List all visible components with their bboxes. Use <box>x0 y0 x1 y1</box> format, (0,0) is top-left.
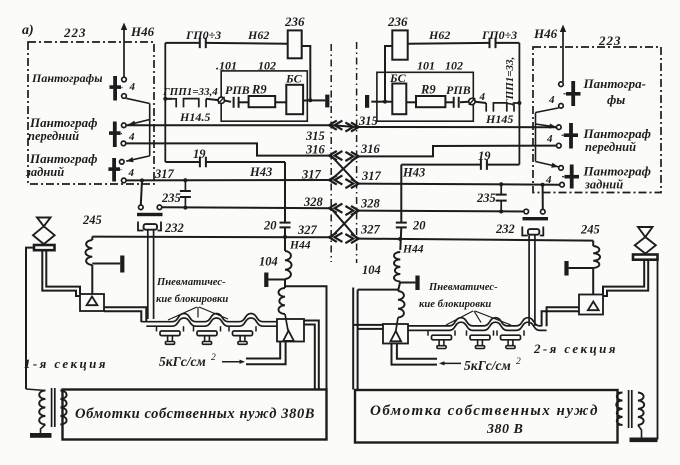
junction dot 327/H43 (left) <box>283 235 287 239</box>
blade arrow into S2 top contact <box>128 120 150 126</box>
chevron 327 right <box>345 234 358 243</box>
svg-text:фы: фы <box>607 92 625 107</box>
svg-text:223: 223 <box>63 25 87 40</box>
wire H46 (left) with up arrow <box>121 23 127 78</box>
valve 232 body (left) <box>138 222 161 231</box>
label H14.5 (left) <box>179 110 210 124</box>
junction dot 317-cap235 (left) <box>183 178 187 182</box>
label 101 (left) <box>216 59 237 73</box>
connector box 101-102 (right) <box>377 72 473 121</box>
label H46 (left) <box>130 24 155 39</box>
label БС (right) <box>389 71 407 85</box>
junction dot wire317-switch (left) <box>140 178 144 182</box>
crossed jumper 327-328 <box>331 211 357 238</box>
label H145 (right) <box>485 112 513 126</box>
block БС (right) <box>392 84 406 115</box>
switch S1 actuator cross (right) <box>566 81 581 106</box>
ground bar contact (left coil245) <box>92 256 124 273</box>
label 20 (right) <box>412 219 426 233</box>
wire 317 (left) <box>126 179 331 181</box>
ground lead (right) <box>638 425 642 438</box>
label 316 (left) <box>305 143 326 157</box>
label H44 (right) <box>402 244 424 256</box>
switch S2 Пантограф передний (right): fixed contacts <box>557 125 562 148</box>
svg-text:328: 328 <box>360 197 381 211</box>
chevron 316 right <box>345 152 358 161</box>
wire between coils (left) <box>284 279 286 288</box>
label 101 (right) <box>417 59 435 73</box>
label 19 (left) <box>193 147 206 161</box>
resistor 236 (left) <box>288 30 302 58</box>
svg-text:380 В: 380 В <box>486 422 523 437</box>
wire 316 (right) <box>357 146 557 157</box>
label 236 (right) <box>387 14 408 29</box>
pointer lines to valves (left) <box>168 307 228 320</box>
capacitor 235 (left) <box>180 180 191 207</box>
label R9 (right) <box>420 83 436 97</box>
label 5kgf/cm2 with arrow (right) <box>439 357 521 373</box>
chevron 315 right <box>345 122 358 131</box>
capacitor 20 (right) <box>396 223 407 228</box>
transformer core (left) <box>52 388 55 427</box>
air supply pipe (left) <box>246 342 286 364</box>
transformer top link (left) <box>26 389 45 391</box>
wire node to BS (right) <box>371 101 392 103</box>
label 223 (right) <box>598 33 622 48</box>
label 327 (left) <box>297 223 318 237</box>
air pipe from pantograph (left) <box>42 250 80 296</box>
wire from 236 down to node (left) <box>302 46 311 100</box>
label 104 (right) <box>362 263 381 277</box>
label БС (left) <box>285 72 303 86</box>
capacitor ГП0÷3 (right) <box>490 38 496 49</box>
label H44 (left) <box>289 240 311 252</box>
wire 328 (left) <box>162 206 331 209</box>
switch S2 Пантограф передний (left): fixed contacts <box>121 123 126 146</box>
ground bar contact (right mid) <box>400 276 419 291</box>
switch S2 actuator cross <box>109 122 121 148</box>
label РПВ (right) <box>446 83 471 97</box>
svg-text:Пневматичес-: Пневматичес- <box>428 282 498 293</box>
switch 235 contacts (left) <box>139 205 162 210</box>
label 245 (left) <box>82 213 102 227</box>
svg-text:104: 104 <box>259 255 278 269</box>
wire to connector (left) <box>206 99 218 100</box>
svg-text:4: 4 <box>128 167 135 179</box>
svg-text:ГПП1=33,: ГПП1=33, <box>504 57 516 107</box>
switch S3 link dash (right) <box>562 176 567 178</box>
switch S1 position label 4 <box>129 81 136 93</box>
wire 328 (right) <box>357 210 524 213</box>
air pipe manifold to aux box (right) <box>353 288 383 390</box>
interlock valve 3 (left) <box>229 326 256 344</box>
crossed jumper 328-327 <box>331 208 357 238</box>
svg-text:Пантограф: Пантограф <box>583 164 651 179</box>
transformer primary coil (right) <box>616 393 622 426</box>
label 235 (right) <box>476 191 496 205</box>
svg-text:R9: R9 <box>420 83 436 97</box>
label 317 (left, by box) <box>154 167 175 181</box>
label Пантограф задний <box>25 151 97 179</box>
label 5kgf/cm2 with arrow (left) <box>159 353 245 369</box>
capacitor 20 (left) <box>280 223 291 228</box>
enclosure box 223 (section 2 switch panel) <box>533 47 661 193</box>
svg-text:Пантограф: Пантограф <box>583 126 651 141</box>
label 4 (right connector) <box>479 91 486 103</box>
label H43 (right) <box>402 166 425 180</box>
label ГПП1=33 (right, rotated) <box>504 57 516 107</box>
disconnector ГПП1 contacts (left) <box>165 99 206 108</box>
svg-text:Обмотка собственных нужд: Обмотка собственных нужд <box>370 403 599 419</box>
interlock valve 3 (right) <box>497 330 524 348</box>
valve triangle 245 (left) <box>87 297 98 306</box>
chevron 315 left <box>329 121 342 130</box>
svg-text:Н145: Н145 <box>485 112 513 126</box>
label Пантографы (right) <box>583 76 646 107</box>
wire between coils (right) <box>398 282 400 292</box>
switch S3 position label 4 <box>128 167 135 179</box>
connector pin (circle with slash, right) <box>469 98 476 105</box>
blade from S1 to riser <box>126 98 150 103</box>
svg-text:4: 4 <box>479 91 486 103</box>
svg-text:2: 2 <box>516 357 521 367</box>
svg-text:317: 317 <box>361 169 382 183</box>
junction dot 328-cap235 (left) <box>183 206 187 210</box>
junction dot 327/H43 (right) <box>398 237 402 241</box>
manifold top pipe with bridges (left) <box>141 314 277 322</box>
svg-text:4: 4 <box>128 131 135 143</box>
section boundary dash line 2 <box>356 42 358 263</box>
wire 317 (right) <box>357 184 560 185</box>
wire into release valve (right) <box>396 318 398 332</box>
label Пневматические блокировки (left) <box>156 277 228 305</box>
label H46 (right) <box>533 26 558 41</box>
svg-text:Н44: Н44 <box>402 244 424 256</box>
wire GPP1 (left) <box>165 98 172 100</box>
wire into release valve (left) <box>285 314 288 331</box>
label 317 (right) <box>361 169 382 183</box>
blade arrow into S3 top contact (right) <box>536 162 559 168</box>
svg-text:315: 315 <box>358 114 378 128</box>
wire 315 section jumper <box>331 125 357 127</box>
valve triangle 245 (right) <box>588 302 599 311</box>
svg-text:316: 316 <box>305 143 326 157</box>
switch 235 bar (left) <box>137 213 163 216</box>
coil 104 (left) <box>285 251 292 279</box>
selector riser wire (left) <box>149 104 151 156</box>
bus vertical wire (left section feed) <box>164 43 166 162</box>
svg-text:4: 4 <box>129 81 136 93</box>
interlock valve 2 (left) <box>194 326 221 344</box>
wire H62 (right) <box>408 42 490 45</box>
current wire pantograph to transformer (left) <box>26 248 34 389</box>
switch S3 position label 4 (right) <box>545 174 552 186</box>
svg-text:102: 102 <box>445 59 463 73</box>
svg-text:232: 232 <box>164 221 184 235</box>
wire to switch 235 (right) <box>542 185 544 210</box>
valve 232 coil legs (left) <box>148 231 154 320</box>
capacitor ГП0÷3 (left) <box>200 38 206 49</box>
svg-text:РПВ: РПВ <box>446 83 471 97</box>
svg-text:2: 2 <box>211 353 216 363</box>
svg-text:Пантогра-: Пантогра- <box>583 76 646 91</box>
label 102 (left) <box>258 59 276 73</box>
wire coil245 top (left) <box>91 237 93 240</box>
wire 315 (right) <box>357 126 557 128</box>
wire to capacitor GP0-3 (right) <box>495 42 519 44</box>
connector pin (circle with slash, left) <box>218 97 225 104</box>
label Пантограф передний (right) <box>583 126 651 154</box>
switch S3 link dash <box>117 168 122 171</box>
svg-text:104: 104 <box>362 263 381 277</box>
ground bar contact (left mid) <box>264 273 285 288</box>
svg-text:Пантограф: Пантограф <box>29 115 97 130</box>
svg-text:Н43: Н43 <box>249 165 272 179</box>
svg-text:ГП0÷3: ГП0÷3 <box>481 28 517 42</box>
wire pin to GPP1 (right) <box>0 0 1 1</box>
svg-text:а): а) <box>22 23 34 38</box>
label Пантограф задний (right) <box>583 164 651 192</box>
label 19 (right) <box>478 149 491 163</box>
transformer primary coil (left) <box>39 391 45 425</box>
connector box 101-102 (left) <box>221 71 307 121</box>
chevron 328 left <box>329 204 342 213</box>
valve box 245 (left) <box>80 294 104 311</box>
wire from 236 down to node (right) <box>385 46 392 102</box>
resistor 236 (right) <box>392 30 407 59</box>
capacitor in RPV branch (right) <box>454 97 459 108</box>
label 245 (right) <box>580 223 600 237</box>
crossed jumper 317-316 <box>331 156 357 180</box>
switch S1 Пантографы (left): fixed contacts <box>122 77 127 98</box>
svg-text:Н44: Н44 <box>289 240 311 252</box>
svg-text:Н62: Н62 <box>247 28 269 42</box>
svg-text:236: 236 <box>284 14 305 29</box>
label 315 (left) <box>305 129 325 143</box>
wire GPP1 (right) <box>475 102 486 103</box>
node dot (right input) <box>383 100 387 104</box>
pointer lines to valves (right) <box>446 311 511 325</box>
label 1-я секция <box>24 356 108 371</box>
svg-text:232: 232 <box>495 222 515 236</box>
capacitor 235 (right) <box>496 184 507 211</box>
chevron 328 right <box>345 206 358 215</box>
switch 235 bar (right) <box>523 217 549 220</box>
label R9 (left) <box>251 83 267 97</box>
transformer secondary coil (right) <box>638 393 644 426</box>
switch S2 position label 4 (right) <box>546 133 553 145</box>
valve 232 coil legs (right) <box>529 236 535 326</box>
blade arrow into S3 top contact <box>126 156 150 162</box>
ground lead (left) <box>41 425 46 434</box>
chevron 317 left <box>329 175 342 184</box>
svg-text:кие блокировки: кие блокировки <box>156 294 228 305</box>
svg-text:.101: .101 <box>216 59 237 73</box>
node dot (left output) <box>308 98 312 102</box>
coil 245 (left) <box>85 240 92 265</box>
branch wire to aux winding box (right) <box>358 289 399 291</box>
svg-text:передний: передний <box>585 140 636 154</box>
svg-text:задний: задний <box>584 178 623 192</box>
interlock valve 2 (right) <box>467 330 494 348</box>
switch S1 link dash <box>118 86 123 89</box>
label Пантограф передний <box>28 115 97 143</box>
svg-text:327: 327 <box>360 223 381 237</box>
svg-text:5кГс/см: 5кГс/см <box>159 354 206 369</box>
svg-text:328: 328 <box>303 195 324 209</box>
switch S1 actuator cross <box>110 76 122 101</box>
wire H62 (left) <box>206 42 288 45</box>
wire 316 (left) <box>126 143 331 155</box>
switch S3 actuator cross (right) <box>565 165 580 189</box>
svg-text:235: 235 <box>476 191 496 205</box>
svg-text:20: 20 <box>412 219 426 233</box>
svg-text:101: 101 <box>417 59 435 73</box>
resistor R9 (right) <box>416 96 445 107</box>
svg-text:Пневматичес-: Пневматичес- <box>156 277 226 288</box>
label 328 (right) <box>360 197 381 211</box>
svg-text:Н46: Н46 <box>130 24 155 39</box>
svg-text:ГПП1=33,4: ГПП1=33,4 <box>162 86 218 98</box>
label Пневматические блокировки (right) <box>419 282 498 310</box>
label РПВ (left) <box>225 83 250 97</box>
wire cap to R9 (right) <box>445 101 453 103</box>
svg-text:задний: задний <box>25 165 64 179</box>
wire R9 to BS (left) <box>275 101 286 103</box>
switch S1 Пантографы (right): fixed contacts <box>559 82 564 108</box>
svg-text:19: 19 <box>193 147 206 161</box>
wire inside connector (right) <box>460 101 469 104</box>
wire BS to node (left) <box>303 99 310 101</box>
label Обмотки собственных нужд 380В <box>75 406 315 422</box>
label ГПП1=33,4 (left) <box>162 86 218 98</box>
label 102 (right) <box>445 59 463 73</box>
svg-text:20: 20 <box>263 219 277 233</box>
block БС (left) <box>286 85 303 114</box>
svg-text:5кГс/см: 5кГс/см <box>464 358 511 373</box>
label a) <box>22 23 34 38</box>
wire coil245 top (right) <box>592 241 594 246</box>
switch S2 actuator cross (right) <box>564 123 578 149</box>
valve 232 body (right) <box>522 227 543 236</box>
release valve box (left) <box>277 319 304 342</box>
svg-text:317: 317 <box>154 167 175 181</box>
svg-text:Обмотки собственных нужд 380В: Обмотки собственных нужд 380В <box>75 406 315 422</box>
svg-text:4: 4 <box>548 94 555 106</box>
release valve triangle (right) <box>391 331 402 341</box>
section boundary dash line 1 <box>330 44 332 262</box>
label H62 (left) <box>247 28 269 42</box>
svg-text:Н46: Н46 <box>533 26 558 41</box>
label 316 (right) <box>360 142 381 156</box>
wire H43 vertical (left) <box>284 162 286 251</box>
wire with capacitor 19 (right) <box>401 164 519 166</box>
wire to switch 235 (left) <box>141 180 142 205</box>
crossed jumper 316-317 <box>331 156 357 184</box>
junction dot wire317-switch (right) <box>541 183 545 187</box>
junction dot wire317-cap235 (right) <box>499 182 503 186</box>
label 236 (left) <box>284 14 305 29</box>
pantograph symbol (left) <box>33 218 55 251</box>
svg-text:315: 315 <box>305 129 325 143</box>
switch S2 link dash <box>117 132 122 135</box>
svg-text:317: 317 <box>301 168 322 182</box>
junction dot 328-cap235 (right) <box>499 210 503 214</box>
svg-text:223: 223 <box>598 33 622 48</box>
svg-text:РПВ: РПВ <box>225 83 250 97</box>
svg-text:Н14.5: Н14.5 <box>179 110 210 124</box>
svg-text:R9: R9 <box>251 83 267 97</box>
selector riser wire (right) <box>535 113 537 162</box>
label 104 (left) <box>259 255 278 269</box>
current wire pantograph to ground (right) <box>657 260 659 440</box>
label Обмотка собственных нужд <box>370 403 599 419</box>
ground bar (right) <box>630 438 658 443</box>
release valve box (right) <box>383 324 408 344</box>
branch wire to aux winding box (left) <box>285 286 327 389</box>
svg-text:245: 245 <box>82 213 102 227</box>
valve box 245 (right) <box>579 295 603 315</box>
wire to R9 (left) <box>239 101 249 103</box>
svg-text:316: 316 <box>360 142 381 156</box>
svg-text:2-я секция: 2-я секция <box>533 341 618 356</box>
switch S2 position label 4 <box>128 131 135 143</box>
terminal bar to section line (right) <box>365 95 369 108</box>
ground bar (left) <box>30 433 52 438</box>
svg-text:Пантографы: Пантографы <box>31 71 103 85</box>
svg-text:БС: БС <box>389 71 407 85</box>
wire coil245 to valve (left) <box>91 265 93 295</box>
label 2-я секция <box>533 341 618 356</box>
pantograph symbol (right) <box>633 227 658 260</box>
release valve triangle (left) <box>283 331 294 341</box>
manifold bottom pipe (right) <box>408 322 547 330</box>
svg-text:БС: БС <box>285 72 303 86</box>
wire 327 (left) <box>92 236 331 239</box>
bus vertical wire (right section feed) <box>518 43 520 165</box>
node dot GPP1 on bus (left) <box>163 97 167 101</box>
svg-text:245: 245 <box>580 223 600 237</box>
chevron 327 left <box>329 233 342 242</box>
transformer secondary coil (left) <box>60 391 66 425</box>
air pipe from pantograph (right) <box>603 260 648 296</box>
lower coil (left) <box>278 288 285 314</box>
svg-text:19: 19 <box>478 149 491 163</box>
ground bar contact (right coil245) <box>564 261 593 276</box>
switch S1 link dash (right) <box>564 93 569 95</box>
svg-text:1-я секция: 1-я секция <box>24 356 108 371</box>
interlock valve 1 (right) <box>428 330 455 348</box>
label 235 (left) <box>161 191 181 205</box>
label 315 (right top) <box>358 114 378 128</box>
wire to capacitor GP0-3 (left) <box>165 42 200 44</box>
svg-text:327: 327 <box>297 223 318 237</box>
label 232 (left) <box>164 221 184 235</box>
aux winding box (left) <box>63 390 327 440</box>
switch 235 contacts (right) <box>524 209 545 214</box>
resistor R9 (left) <box>249 96 276 107</box>
blade arrow into S2 top contact (right) <box>536 124 557 129</box>
capacitor in RPV branch (left) <box>234 97 239 108</box>
air supply pipe (right) <box>392 343 438 364</box>
transformer core (right) <box>629 390 632 428</box>
svg-text:ГП0÷3: ГП0÷3 <box>185 28 221 42</box>
svg-text:Н62: Н62 <box>428 28 450 42</box>
wire with capacitor 19 (left) <box>165 161 285 163</box>
label ГП0÷3 (right) <box>481 28 517 42</box>
terminal bar to section line (left) <box>310 95 329 108</box>
chevron 316 left <box>329 151 342 160</box>
